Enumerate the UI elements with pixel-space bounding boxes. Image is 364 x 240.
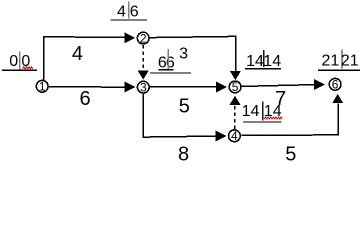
svg-text:3: 3 (140, 80, 147, 94)
svg-text:14: 14 (242, 103, 260, 120)
svg-text:3: 3 (179, 45, 188, 62)
svg-text:14: 14 (263, 53, 281, 70)
svg-text:6: 6 (80, 88, 91, 110)
svg-text:2: 2 (140, 31, 147, 45)
svg-text:8: 8 (178, 144, 189, 164)
svg-text:14: 14 (246, 53, 264, 70)
svg-text:1: 1 (39, 80, 46, 94)
svg-text:21: 21 (322, 53, 340, 70)
svg-text:5: 5 (285, 143, 296, 164)
svg-text:6: 6 (332, 78, 339, 92)
svg-text:0: 0 (9, 53, 18, 70)
svg-text:4: 4 (231, 129, 238, 143)
svg-text:6: 6 (130, 4, 139, 21)
svg-text:5: 5 (179, 96, 190, 118)
svg-text:21: 21 (341, 53, 359, 70)
svg-text:4: 4 (72, 43, 83, 65)
svg-text:4: 4 (117, 4, 126, 21)
svg-text:6: 6 (166, 54, 175, 71)
svg-text:5: 5 (232, 80, 239, 94)
